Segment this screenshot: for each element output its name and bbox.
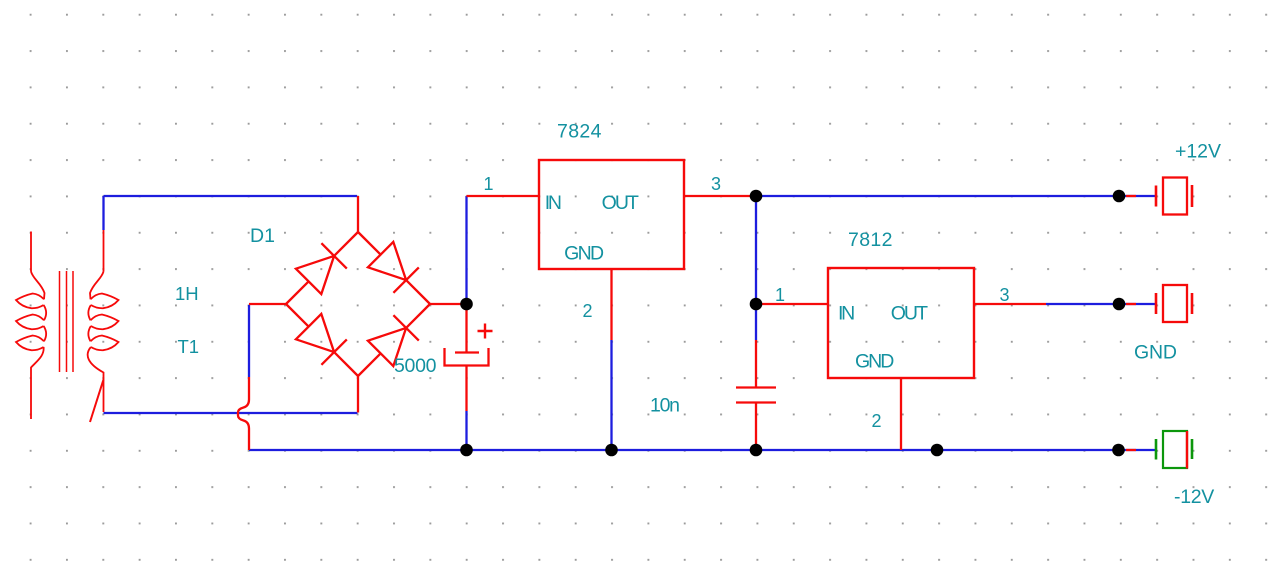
svg-text:T1: T1: [178, 336, 200, 357]
svg-text:OUT: OUT: [602, 192, 639, 214]
svg-text:GND: GND: [564, 243, 604, 265]
svg-text:+12V: +12V: [1175, 141, 1221, 163]
svg-text:IN: IN: [838, 303, 855, 325]
svg-text:GND: GND: [1134, 342, 1177, 364]
svg-text:3: 3: [711, 174, 721, 194]
svg-text:1: 1: [484, 174, 494, 194]
svg-text:OUT: OUT: [891, 303, 928, 325]
svg-text:IN: IN: [545, 192, 562, 214]
svg-text:7824: 7824: [557, 121, 602, 143]
svg-text:7812: 7812: [848, 229, 893, 251]
svg-text:D1: D1: [250, 225, 275, 247]
svg-text:10n: 10n: [650, 395, 680, 417]
svg-text:2: 2: [583, 301, 593, 321]
svg-text:GND: GND: [855, 351, 894, 373]
svg-text:5000: 5000: [394, 355, 437, 377]
svg-text:1: 1: [775, 285, 785, 305]
svg-text:2: 2: [872, 411, 882, 431]
svg-text:3: 3: [1000, 285, 1010, 305]
svg-text:-12V: -12V: [1174, 486, 1214, 508]
svg-text:1H: 1H: [175, 283, 199, 304]
